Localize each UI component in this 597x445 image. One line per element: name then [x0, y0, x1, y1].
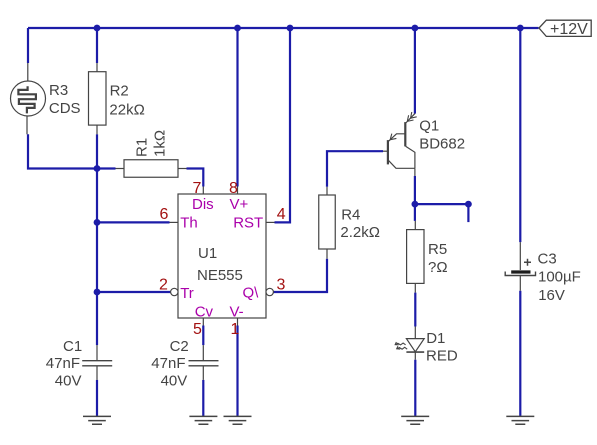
svg-text:8: 8: [229, 180, 238, 197]
svg-text:C3: C3: [538, 250, 557, 267]
svg-text:R1: R1: [134, 138, 151, 157]
svg-text:40V: 40V: [55, 372, 82, 389]
svg-text:Tr: Tr: [180, 285, 194, 302]
svg-text:100µF: 100µF: [538, 269, 581, 286]
svg-text:2: 2: [159, 277, 168, 294]
svg-text:5: 5: [193, 321, 202, 338]
svg-text:V+: V+: [230, 196, 249, 213]
svg-text:40V: 40V: [161, 372, 188, 389]
svg-text:47nF: 47nF: [151, 355, 185, 372]
svg-text:7: 7: [193, 180, 202, 197]
svg-text:3: 3: [277, 277, 286, 294]
svg-text:NE555: NE555: [197, 267, 243, 284]
svg-text:RED: RED: [426, 348, 458, 365]
svg-text:Cv: Cv: [195, 304, 214, 321]
svg-text:22kΩ: 22kΩ: [109, 101, 144, 118]
svg-text:R4: R4: [341, 206, 360, 223]
svg-text:C2: C2: [170, 338, 189, 355]
svg-text:Q\: Q\: [243, 285, 260, 302]
svg-text:Th: Th: [180, 214, 198, 231]
svg-text:?Ω: ?Ω: [428, 259, 448, 276]
svg-text:Q1: Q1: [419, 118, 439, 135]
svg-text:BD682: BD682: [419, 136, 465, 153]
svg-text:16V: 16V: [538, 287, 565, 304]
svg-text:Dis: Dis: [192, 196, 214, 213]
svg-text:D1: D1: [426, 330, 445, 347]
svg-text:V-: V-: [230, 304, 244, 321]
svg-text:47nF: 47nF: [46, 355, 80, 372]
svg-text:R3: R3: [49, 82, 68, 99]
svg-text:R2: R2: [110, 82, 129, 99]
svg-text:C1: C1: [63, 338, 82, 355]
svg-text:R5: R5: [428, 241, 447, 258]
svg-text:+12V: +12V: [550, 21, 588, 38]
svg-text:RST: RST: [233, 214, 263, 231]
svg-text:6: 6: [160, 206, 169, 223]
svg-text:2.2kΩ: 2.2kΩ: [340, 224, 380, 241]
svg-text:4: 4: [277, 206, 286, 223]
svg-text:1: 1: [231, 321, 240, 338]
svg-text:1kΩ: 1kΩ: [152, 130, 169, 157]
svg-text:U1: U1: [198, 245, 217, 262]
svg-text:CDS: CDS: [49, 100, 81, 117]
